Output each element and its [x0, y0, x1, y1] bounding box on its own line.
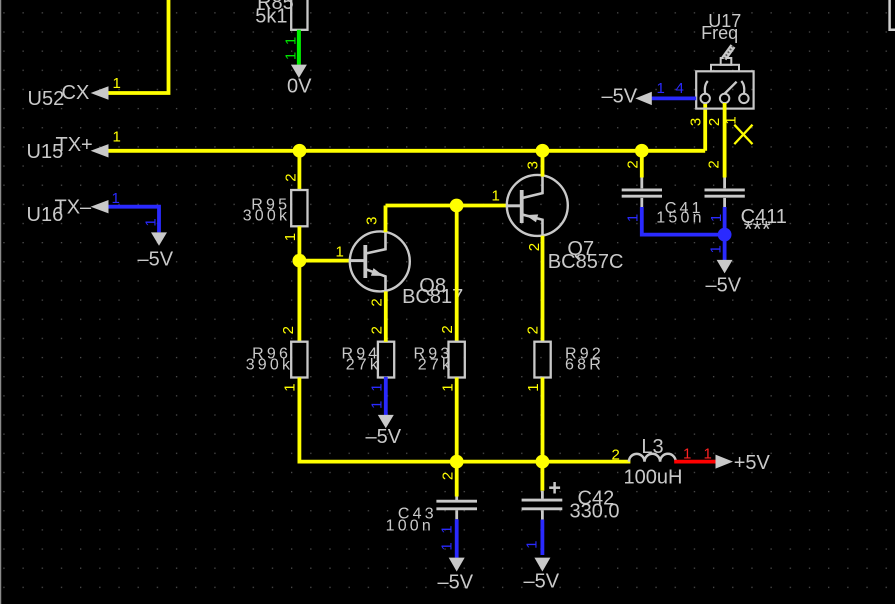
svg-text:27k: 27k: [346, 357, 381, 374]
svg-text:2: 2: [612, 447, 620, 464]
svg-text:27k: 27k: [418, 357, 453, 374]
node -5V junction (blue): [718, 228, 732, 242]
svg-text:CX: CX: [62, 82, 90, 104]
wire TX+ to R95: [297, 151, 301, 190]
svg-text:1: 1: [657, 80, 665, 97]
wire base node to R96: [297, 261, 301, 342]
no-connect X on U17 pin 1: [734, 125, 752, 144]
resistor R94: [378, 342, 394, 378]
resistor R85: [291, 0, 307, 30]
supply -5V symbol (C42): [534, 558, 550, 572]
svg-text:1: 1: [282, 383, 299, 391]
capacitor C3 C411: [705, 178, 745, 208]
wire C42 to -5V (blue): [541, 520, 545, 555]
svg-text:1: 1: [368, 401, 385, 409]
wire switch pin2 to C411: [723, 103, 727, 178]
svg-text:1: 1: [439, 383, 456, 391]
svg-text:–5V: –5V: [524, 571, 560, 593]
svg-text:1: 1: [113, 75, 121, 92]
svg-text:–5V: –5V: [602, 86, 638, 108]
svg-text:4: 4: [676, 80, 684, 97]
svg-text:1: 1: [523, 541, 540, 549]
supply -5V symbol (R94): [378, 415, 394, 428]
supply -5V symbol (C43): [449, 558, 465, 572]
node TX+/Q7 junction: [536, 144, 550, 158]
wire CX net: [109, 0, 169, 93]
svg-text:BC817: BC817: [402, 286, 463, 308]
svg-text:TX+: TX+: [56, 134, 93, 156]
svg-text:1: 1: [438, 525, 455, 533]
svg-text:1: 1: [704, 446, 712, 463]
svg-text:390k: 390k: [246, 357, 294, 374]
wire R96 to bottom rail: [299, 378, 630, 462]
svg-text:1: 1: [336, 244, 344, 261]
wire TX- net: [109, 207, 160, 233]
svg-text:1: 1: [525, 383, 542, 391]
svg-text:1: 1: [283, 37, 300, 45]
wire junction to -5V arrow: [723, 235, 727, 261]
wire C43 lead: [455, 462, 459, 497]
node rail/C43 junction: [450, 455, 464, 469]
node TX+/C41 junction: [635, 144, 649, 158]
frame edge left: [0, 0, 2, 604]
svg-text:1: 1: [492, 187, 500, 204]
node R93 junction: [450, 199, 464, 213]
svg-text:100uH: 100uH: [624, 467, 683, 489]
switch lever hatch: [724, 46, 733, 59]
resistor R95: [291, 190, 307, 226]
svg-text:1: 1: [708, 214, 725, 222]
capacitor C43: [436, 497, 477, 520]
svg-text:0V: 0V: [287, 76, 312, 98]
node TX+/R95 junction: [293, 144, 307, 158]
transistor Q7 emitter arrow (PNP): [526, 214, 539, 222]
wire 0V net (green): [297, 30, 301, 65]
svg-text:300k: 300k: [243, 208, 291, 225]
svg-text:2: 2: [439, 472, 456, 480]
wire +5V net (red): [674, 460, 716, 464]
svg-text:3: 3: [524, 161, 541, 169]
svg-text:2: 2: [625, 160, 642, 168]
wire TX+ net: [109, 149, 706, 153]
resistor R93: [449, 342, 465, 378]
svg-text:2: 2: [706, 118, 723, 126]
wire R95 to base node: [297, 226, 301, 260]
wire TX+ junction to C41: [640, 151, 644, 178]
svg-text:1: 1: [113, 129, 121, 146]
wire R93 column upper: [455, 206, 459, 342]
svg-text:1: 1: [283, 52, 300, 60]
svg-text:5k1: 5k1: [255, 6, 287, 28]
wire Q7 collector to TX+: [541, 151, 545, 177]
svg-text:1: 1: [282, 233, 299, 241]
svg-text:–5V: –5V: [366, 426, 402, 448]
wire R94 to -5V (blue): [384, 377, 388, 415]
supply -5V symbol (TX-): [151, 232, 167, 245]
svg-text:2: 2: [705, 160, 722, 168]
svg-text:1: 1: [683, 446, 691, 463]
svg-text:3: 3: [688, 118, 705, 126]
wire collector to Q7 base: [386, 204, 508, 208]
svg-text:TX–: TX–: [55, 197, 93, 219]
svg-text:1: 1: [624, 214, 641, 222]
resistor R96: [291, 342, 307, 378]
wire R93 to bottom rail: [455, 378, 459, 462]
sheet corner top right: [890, 0, 895, 30]
wire C43 to -5V (blue): [455, 519, 459, 558]
capacitor C42 (polarized): [522, 482, 563, 520]
svg-text:2: 2: [439, 325, 456, 333]
capacitor C41: [622, 178, 662, 208]
transistor Q1 body Q7: [507, 175, 568, 236]
wire Q8 base: [299, 259, 350, 263]
svg-text:1: 1: [707, 245, 724, 253]
svg-text:2: 2: [368, 298, 385, 306]
svg-text:–5V: –5V: [138, 249, 174, 271]
inductor L3: [629, 454, 676, 462]
svg-text:U52: U52: [28, 88, 65, 110]
svg-text:1: 1: [438, 542, 455, 550]
svg-text:1: 1: [112, 190, 120, 207]
input arrow U52: [91, 86, 109, 99]
node rail/C42 junction: [536, 455, 550, 469]
wire Q8 collector riser: [384, 206, 388, 233]
wire C41/C411 to -5V (blue): [642, 207, 725, 235]
svg-text:BC857C: BC857C: [548, 251, 624, 273]
transistor Q2 body Q8: [350, 231, 410, 291]
switch U17: [696, 46, 753, 109]
supply +5V symbol: [716, 455, 734, 469]
node R95/R96/Q8 junction: [293, 254, 307, 268]
svg-text:–5V: –5V: [438, 572, 474, 594]
wire -5V to switch (blue): [649, 97, 696, 101]
svg-text:***: ***: [744, 216, 771, 242]
svg-text:Freq: Freq: [701, 23, 738, 43]
supply 0V symbol: [291, 65, 307, 78]
svg-text:2: 2: [282, 173, 299, 181]
svg-text:L3: L3: [641, 436, 663, 458]
svg-text:+5V: +5V: [734, 452, 771, 474]
svg-text:2: 2: [526, 243, 543, 251]
svg-text:68R: 68R: [565, 357, 604, 374]
svg-text:330.0: 330.0: [570, 500, 620, 522]
wire R92 to bottom rail: [541, 378, 545, 462]
wire Q8 emitter to R94: [384, 291, 388, 341]
svg-text:2: 2: [280, 326, 297, 334]
wire switch pin3 riser: [703, 103, 707, 151]
svg-text:–5V: –5V: [706, 275, 742, 297]
transistor Q8 emitter arrow: [371, 268, 384, 276]
wire Q7 emitter to R92: [541, 236, 545, 342]
svg-text:100n: 100n: [386, 518, 434, 535]
input arrow U16: [91, 200, 109, 213]
svg-text:1: 1: [368, 383, 385, 391]
wire C42 lead: [541, 462, 545, 491]
svg-text:3: 3: [364, 217, 381, 225]
supply -5V symbol (C411): [717, 260, 733, 274]
svg-text:1: 1: [143, 218, 160, 226]
svg-text:150n: 150n: [656, 210, 704, 227]
svg-text:2: 2: [524, 326, 541, 334]
svg-text:2: 2: [368, 326, 385, 334]
resistor R92: [534, 342, 550, 378]
supply -5V symbol (switch): [635, 92, 652, 105]
input arrow U15: [91, 144, 109, 157]
